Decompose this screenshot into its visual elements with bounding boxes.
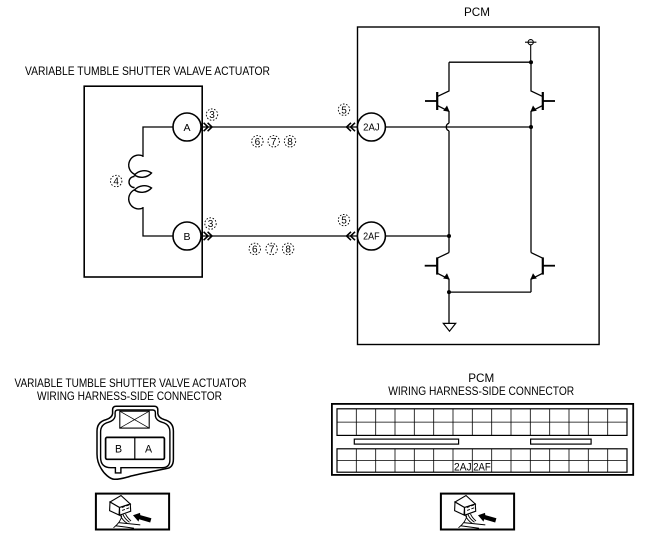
pin 2AF bbox=[357, 222, 385, 250]
connector icon definition bbox=[110, 496, 152, 529]
svg-text:6: 6 bbox=[255, 137, 261, 148]
svg-text:2AJ: 2AJ bbox=[363, 123, 380, 134]
PCM connector bottom grid bbox=[337, 449, 627, 472]
svg-text:8: 8 bbox=[285, 245, 291, 256]
PCM connector outer bbox=[332, 404, 633, 475]
callout 3 (A row) bbox=[206, 109, 217, 120]
wire A to coil bbox=[143, 127, 173, 157]
pin 2AJ bbox=[357, 113, 385, 141]
wire hop (Q1 emitter over 2AJ wire) bbox=[446, 123, 449, 131]
terminal B bbox=[173, 222, 201, 250]
transistor Q4 (bottom-right) bbox=[531, 253, 555, 293]
actuator connector inner contour bbox=[101, 410, 170, 473]
node J3 bbox=[447, 290, 451, 294]
callout 5 (B row) bbox=[338, 214, 349, 225]
connector chevrons B bbox=[204, 232, 212, 240]
power symbol bbox=[525, 40, 536, 63]
svg-text:4: 4 bbox=[113, 177, 119, 188]
svg-text:2AJ: 2AJ bbox=[454, 462, 472, 474]
wire A row bbox=[201, 126, 357, 128]
svg-text:6: 6 bbox=[252, 245, 258, 256]
wire to ground bbox=[448, 292, 450, 323]
svg-text:PCM: PCM bbox=[468, 371, 494, 385]
wire Q1 emitter down to 2AF node bbox=[448, 131, 450, 236]
callouts 6 7 8 (A row) bbox=[252, 136, 296, 147]
PCM box bbox=[358, 27, 600, 345]
callout 3 (B row) bbox=[205, 218, 216, 229]
right icon box bbox=[441, 494, 514, 530]
svg-text:WIRING HARNESS-SIDE CONNECTOR: WIRING HARNESS-SIDE CONNECTOR bbox=[37, 389, 222, 403]
actuator connector outer shell bbox=[97, 406, 173, 479]
bottom link wire bbox=[449, 291, 531, 293]
3d housing bbox=[110, 496, 130, 508]
terminal details bbox=[122, 505, 129, 510]
svg-text:VARIABLE TUMBLE SHUTTER VALAVE: VARIABLE TUMBLE SHUTTER VALAVE ACTUATOR bbox=[25, 64, 270, 78]
svg-text:7: 7 bbox=[269, 245, 275, 256]
svg-text:3: 3 bbox=[208, 219, 214, 230]
svg-text:WIRING HARNESS-SIDE CONNECTOR: WIRING HARNESS-SIDE CONNECTOR bbox=[388, 384, 574, 398]
left icon box bbox=[96, 494, 169, 530]
connector chevrons 2AF bbox=[347, 232, 355, 240]
cavity B/A bbox=[106, 437, 165, 459]
svg-text:2AF: 2AF bbox=[473, 462, 491, 474]
transistor Q3 (bottom-left) bbox=[425, 253, 449, 293]
svg-text:PCM: PCM bbox=[464, 7, 490, 19]
svg-text:VARIABLE TUMBLE SHUTTER VALVE: VARIABLE TUMBLE SHUTTER VALVE ACTUATOR bbox=[15, 376, 247, 390]
PCM connector middle slots bbox=[354, 439, 458, 444]
svg-text:3: 3 bbox=[209, 110, 215, 121]
svg-text:8: 8 bbox=[287, 137, 293, 148]
wires bbox=[114, 514, 132, 528]
svg-text:A: A bbox=[183, 122, 190, 134]
ground bbox=[443, 323, 455, 331]
junction rail/power bbox=[529, 60, 533, 64]
wire 2AF to node J2 bbox=[385, 235, 449, 237]
wire node J2 down to Q3 bbox=[448, 236, 450, 253]
actuator box bbox=[84, 86, 202, 277]
connector chevrons 2AJ bbox=[347, 123, 355, 131]
svg-text:7: 7 bbox=[271, 137, 277, 148]
wire node J1 down to Q4 bbox=[530, 127, 532, 253]
terminal A bbox=[173, 113, 201, 141]
transistor Q1 (top-left) bbox=[425, 62, 449, 123]
callouts 6 7 8 (B row) bbox=[249, 243, 294, 254]
wire 2AJ to node J1 bbox=[385, 126, 531, 128]
svg-text:A: A bbox=[145, 444, 153, 456]
connector chevrons A bbox=[204, 123, 212, 131]
node J2 bbox=[447, 234, 451, 238]
svg-text:B: B bbox=[115, 444, 122, 456]
keyway box with X bbox=[120, 411, 149, 428]
node J1 bbox=[529, 125, 533, 129]
wire B row bbox=[201, 235, 357, 237]
arrow bbox=[133, 513, 151, 523]
callout 4 bbox=[111, 175, 122, 186]
right connector icon bbox=[455, 496, 497, 529]
wire coil to B bbox=[143, 207, 173, 236]
PCM connector top grid bbox=[337, 409, 627, 436]
svg-text:B: B bbox=[183, 231, 190, 243]
svg-text:5: 5 bbox=[341, 216, 347, 227]
top rail bbox=[449, 61, 531, 63]
transistor Q2 (top-right) bbox=[531, 62, 555, 127]
callout 5 (A row) bbox=[338, 104, 349, 115]
svg-text:2AF: 2AF bbox=[363, 232, 380, 243]
svg-text:5: 5 bbox=[341, 105, 347, 116]
coil L1 bbox=[129, 155, 152, 209]
